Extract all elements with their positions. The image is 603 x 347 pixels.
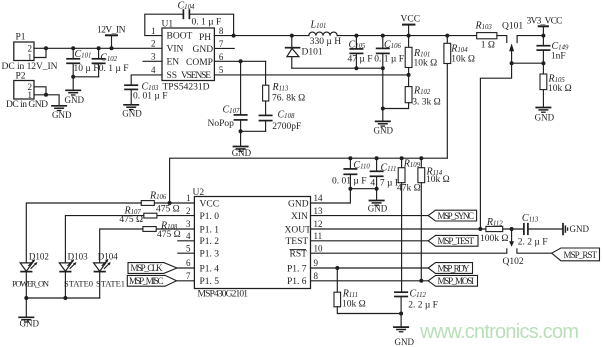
svg-text:BOOT: BOOT — [167, 32, 193, 42]
svg-text:P1. 4: P1. 4 — [200, 264, 220, 274]
capacitor C149 — [536, 36, 569, 64]
wire R112 to C113 — [503, 228, 524, 230]
LED D103 — [59, 252, 93, 298]
wire R113 to C108 — [265, 101, 267, 115]
capacitor C104 — [178, 1, 222, 28]
svg-text:7: 7 — [219, 39, 224, 49]
node D103 cathode — [63, 296, 67, 300]
svg-text:MSP_MISC: MSP_MISC — [129, 276, 164, 286]
wire P1 pin2 — [34, 47, 46, 49]
node C105 bottom — [354, 66, 358, 70]
svg-text:12: 12 — [314, 219, 323, 229]
wire BOOT pin1 — [145, 14, 184, 35]
node P2 junction — [44, 93, 48, 97]
svg-text:3: 3 — [186, 219, 191, 229]
svg-text:MSP_RDY: MSP_RDY — [438, 263, 471, 273]
node C106 top — [381, 34, 385, 38]
tag MSP_TEST — [428, 235, 478, 246]
node C101 bottom — [71, 75, 75, 79]
svg-text:2. 2 µ F: 2. 2 µ F — [408, 301, 438, 311]
svg-text:MSP_RST: MSP_RST — [564, 250, 598, 260]
svg-text:www.cntronics.com: www.cntronics.com — [419, 321, 579, 343]
svg-text:GND: GND — [122, 108, 142, 118]
node C106 bottom — [381, 66, 385, 70]
svg-text:MSP_SYNC: MSP_SYNC — [438, 211, 475, 221]
wire RST pin10 row — [311, 249, 507, 253]
svg-text:2: 2 — [186, 206, 191, 216]
wire C113 to ground — [528, 228, 563, 230]
svg-text:1nF: 1nF — [551, 52, 566, 62]
wire P2 pin1 — [34, 95, 59, 106]
svg-text:4: 4 — [151, 65, 156, 75]
svg-text:GND: GND — [374, 126, 394, 136]
svg-text:GND: GND — [288, 199, 309, 209]
capacitor C110 — [332, 158, 370, 189]
svg-text:13: 13 — [314, 206, 324, 216]
svg-text:MSP430G2101: MSP430G2101 — [198, 290, 249, 300]
svg-text:330 µ H: 330 µ H — [310, 37, 341, 47]
wire LED cathode rail — [26, 298, 99, 317]
svg-text:9: 9 — [314, 258, 319, 268]
svg-text:10k Ω: 10k Ω — [342, 300, 366, 310]
svg-text:GND: GND — [52, 110, 72, 120]
svg-text:6: 6 — [219, 52, 224, 62]
svg-text:3: 3 — [151, 52, 156, 62]
wire EN stub — [143, 60, 162, 62]
svg-text:6: 6 — [186, 258, 191, 268]
node C105 top — [354, 34, 358, 38]
svg-text:3V3_VCC: 3V3_VCC — [527, 16, 563, 26]
svg-text:GND: GND — [368, 203, 388, 213]
svg-text:12V_IN: 12V_IN — [97, 25, 126, 35]
svg-text:3. 3k Ω: 3. 3k Ω — [412, 98, 440, 108]
wire comp ground bus — [241, 131, 266, 146]
transistor Q102 — [503, 229, 552, 267]
ground C112 — [393, 327, 414, 347]
capacitor C107 — [208, 104, 248, 131]
ground comp network — [232, 147, 252, 159]
wire R106 to D102 — [26, 203, 141, 263]
node R104 tap — [445, 34, 449, 38]
svg-text:P1. 0: P1. 0 — [200, 212, 220, 222]
svg-text:U1: U1 — [162, 20, 174, 30]
svg-text:5: 5 — [219, 65, 224, 75]
op-amp U1 TPS54231D regulator — [162, 20, 215, 93]
node R109 tap — [400, 156, 404, 160]
svg-text:P2: P2 — [16, 72, 26, 82]
tag MSP_RST — [552, 248, 600, 261]
node C104 PH — [232, 34, 236, 38]
wire XIN pin13 row — [311, 215, 429, 217]
svg-text:4. 7 µ F: 4. 7 µ F — [370, 179, 400, 189]
wire cap bottoms join — [350, 188, 376, 190]
node P1 junction — [44, 46, 48, 50]
svg-text:47k Ω: 47k Ω — [397, 184, 421, 194]
svg-text:0. 1 µ F: 0. 1 µ F — [192, 18, 222, 28]
svg-text:10k Ω: 10k Ω — [414, 59, 438, 69]
ground R105 — [535, 108, 555, 123]
wire SS pin4 — [131, 75, 162, 85]
node 3V3 rail — [541, 34, 545, 38]
svg-text:MSP_CLK: MSP_CLK — [131, 263, 164, 273]
resistor R105 — [540, 63, 572, 107]
capacitor C112 — [394, 289, 438, 314]
node R114 tap — [419, 156, 423, 160]
node R114 bottom — [419, 279, 423, 283]
resistor R107 — [119, 206, 157, 226]
node C110 bottom — [348, 187, 352, 191]
wire P1.1 pin3 row — [156, 228, 194, 230]
resistor R108 — [143, 220, 181, 240]
wire rail after L101 — [337, 35, 477, 37]
ground output — [374, 121, 394, 135]
svg-text:D101: D101 — [302, 48, 323, 58]
wire base node to 3V3 node — [512, 62, 544, 64]
node C102 tap — [97, 46, 101, 50]
node Q102 tap — [510, 227, 514, 231]
svg-text:VIN: VIN — [167, 45, 184, 55]
resistor R112 — [480, 217, 508, 244]
node bus to VCC pin — [168, 201, 172, 205]
svg-text:5: 5 — [186, 243, 191, 253]
node C107 bottom — [239, 129, 243, 133]
capacitor C103 — [124, 81, 167, 104]
tag MSP_CLK — [128, 263, 194, 274]
wire 12V rail — [46, 47, 162, 49]
svg-text:RST: RST — [290, 250, 308, 260]
wire R107 to D103 — [65, 216, 143, 263]
diode D101 — [285, 36, 323, 69]
wire C104 to PH — [189, 14, 233, 35]
node C101 tap — [71, 46, 75, 50]
svg-text:10k Ω: 10k Ω — [451, 54, 475, 64]
transistor Q101 — [502, 21, 543, 63]
svg-text:10 µ F: 10 µ F — [74, 64, 99, 74]
svg-text:D104: D104 — [98, 252, 118, 262]
wire GND pin7 stub — [214, 47, 234, 49]
node VSENSE divider — [407, 73, 411, 77]
svg-text:2. 2 µ F: 2. 2 µ F — [518, 238, 548, 248]
wire C111 to ground — [376, 189, 378, 201]
svg-text:4: 4 — [186, 231, 191, 241]
wire to ground C112 — [400, 314, 402, 327]
svg-text:D102: D102 — [29, 252, 49, 262]
svg-text:D103: D103 — [68, 252, 88, 262]
svg-text:P1. 1: P1. 1 — [200, 225, 220, 235]
power flag VCC — [401, 14, 421, 35]
wire output bottom rail — [292, 67, 383, 69]
resistor R102 — [383, 75, 441, 109]
wire VCC pin1 row — [154, 202, 194, 204]
svg-text:0. 01 µ F: 0. 01 µ F — [332, 177, 367, 187]
svg-text:DC in 12V_IN: DC in 12V_IN — [2, 62, 58, 72]
svg-text:GND: GND — [570, 224, 590, 234]
connector P2 — [6, 72, 48, 110]
svg-text:47 µ F: 47 µ F — [348, 55, 373, 65]
wire C106 down to ground — [382, 68, 384, 121]
node 12V_IN tap — [110, 46, 114, 50]
svg-text:P1: P1 — [16, 33, 26, 43]
LED D104 — [94, 252, 125, 298]
ground C111 — [368, 201, 388, 214]
node reset line join — [478, 227, 482, 231]
svg-text:1: 1 — [151, 26, 156, 36]
power flag 3V3_VCC — [527, 16, 563, 35]
svg-text:SS: SS — [167, 71, 178, 81]
ground LEDs — [18, 317, 39, 328]
svg-text:0. 01 µ F: 0. 01 µ F — [133, 92, 168, 102]
svg-text:POWER_ON: POWER_ON — [12, 279, 49, 289]
wire XOUT pin12 row — [311, 228, 486, 230]
svg-text:PH: PH — [199, 33, 211, 43]
node C149 bottom — [541, 61, 545, 65]
svg-text:P1. 6: P1. 6 — [287, 277, 307, 287]
svg-text:VSENSE: VSENSE — [181, 71, 211, 81]
svg-text:MSP_TEST: MSP_TEST — [438, 236, 475, 246]
wire PH rail — [214, 35, 308, 37]
capacitor C102 — [92, 48, 129, 77]
svg-text:P1. 5: P1. 5 — [200, 277, 220, 287]
wire TEST pin11 row — [311, 240, 429, 242]
resistor R101 — [405, 36, 437, 75]
svg-text:475 Ω: 475 Ω — [119, 215, 143, 225]
resistor R113 — [263, 82, 306, 104]
resistor R114 — [418, 158, 450, 281]
svg-text:0. 1 µ F: 0. 1 µ F — [374, 55, 404, 65]
svg-text:DC in GND: DC in GND — [6, 100, 48, 110]
svg-text:11: 11 — [314, 231, 323, 241]
svg-text:COMP: COMP — [186, 58, 213, 68]
wire Q101 base jog down — [480, 63, 511, 229]
svg-text:GND: GND — [65, 95, 85, 105]
wire COMP down to C107 — [240, 61, 242, 114]
svg-text:Q101: Q101 — [502, 21, 523, 31]
svg-text:1 Ω: 1 Ω — [481, 41, 495, 51]
svg-text:U2: U2 — [193, 188, 205, 198]
svg-text:STATE0: STATE0 — [64, 279, 93, 289]
node C110 tap — [348, 156, 352, 160]
svg-text:GND: GND — [20, 318, 40, 328]
capacitor C105 — [348, 36, 373, 69]
svg-text:MSP_MOSI: MSP_MOSI — [438, 276, 475, 286]
wire P1.7 pin9 row — [311, 267, 429, 269]
svg-text:P1. 3: P1. 3 — [200, 250, 220, 260]
ground C103 — [122, 105, 142, 119]
ground P2 — [51, 106, 72, 120]
svg-text:2700pF: 2700pF — [272, 122, 301, 132]
wire P1.6 pin8 row — [311, 280, 429, 282]
wire R108 to D104 — [100, 229, 143, 263]
wire P2 pin2 — [34, 87, 46, 95]
svg-text:GND: GND — [395, 337, 415, 347]
svg-text:NoPop: NoPop — [208, 119, 235, 129]
node C112 bottom — [399, 312, 403, 316]
svg-text:8: 8 — [314, 271, 319, 281]
node R102 return — [381, 107, 385, 111]
svg-text:TPS54231D: TPS54231D — [163, 83, 210, 93]
power flag 12V_IN — [97, 25, 126, 48]
inductor L101 — [309, 19, 341, 47]
capacitor C113 — [518, 213, 548, 248]
node Q101 base — [510, 61, 514, 65]
wire 3V3 bus — [170, 158, 448, 203]
svg-text:76. 8k Ω: 76. 8k Ω — [272, 94, 305, 104]
svg-text:VCC: VCC — [200, 199, 220, 209]
connector P1 — [2, 33, 58, 72]
svg-text:GND: GND — [232, 148, 252, 158]
svg-text:P1. 2: P1. 2 — [200, 237, 220, 247]
svg-text:10k Ω: 10k Ω — [426, 175, 450, 185]
svg-text:XIN: XIN — [291, 212, 308, 222]
capacitor C101 — [66, 48, 98, 77]
wire P1.2 stub — [178, 240, 195, 242]
tag MSP_MOSI — [428, 275, 477, 286]
wire COMP pin6 — [214, 60, 265, 62]
svg-text:STATE1: STATE1 — [96, 279, 125, 289]
node COMP C107 — [239, 59, 243, 63]
resistor R104 — [444, 36, 475, 159]
svg-text:475 Ω: 475 Ω — [157, 230, 181, 240]
tag MSP_RDY — [428, 263, 472, 274]
svg-text:Q102: Q102 — [503, 257, 524, 267]
wire P1 pin1 — [34, 48, 46, 57]
svg-text:VCC: VCC — [401, 14, 421, 24]
ground input caps — [65, 90, 85, 105]
svg-text:P1. 7: P1. 7 — [287, 264, 307, 274]
wire P1.0 pin2 row — [157, 215, 195, 217]
node C111 bottom — [375, 187, 379, 191]
wire COMP down to R113 — [265, 61, 267, 85]
svg-text:10k Ω: 10k Ω — [548, 84, 572, 94]
svg-text:14: 14 — [314, 193, 324, 203]
node VCC tap — [407, 34, 411, 38]
svg-text:TEST: TEST — [286, 237, 309, 247]
svg-text:7: 7 — [186, 271, 191, 281]
svg-text:10: 10 — [314, 243, 324, 253]
svg-text:475 Ω: 475 Ω — [156, 205, 180, 215]
op-amp U2 MSP430G2101 — [193, 188, 312, 300]
svg-text:GND: GND — [535, 113, 555, 123]
wire C101 C102 ground join — [73, 77, 98, 90]
wire P1.3 stub — [178, 252, 195, 254]
wire R103 to Q101 — [497, 36, 507, 43]
resistor R103 — [475, 20, 497, 50]
svg-text:EN: EN — [167, 58, 180, 68]
svg-text:1: 1 — [186, 193, 191, 203]
tag MSP_MISC — [127, 275, 194, 286]
svg-text:2: 2 — [151, 39, 156, 49]
resistor R111 — [334, 268, 401, 314]
node C111 tap — [375, 156, 379, 160]
node D102 cathode — [24, 296, 28, 300]
wire VSENSE line — [214, 74, 408, 76]
tag MSP_SYNC — [428, 210, 476, 221]
wire to U2 GND pin14 — [311, 189, 351, 203]
LED D102 — [12, 252, 49, 298]
resistor R106 — [141, 190, 179, 214]
svg-text:GND: GND — [193, 45, 214, 55]
node R111 tap — [335, 266, 339, 270]
capacitor C111 — [370, 158, 401, 189]
capacitor C108 — [259, 110, 302, 133]
ground sideways C113 — [563, 223, 589, 235]
capacitor C106 — [374, 36, 404, 69]
svg-text:1: 1 — [28, 90, 33, 100]
resistor R109 — [397, 158, 421, 292]
svg-text:XOUT: XOUT — [285, 225, 312, 235]
svg-text:0. 1 µ F: 0. 1 µ F — [99, 64, 129, 74]
node D101 — [290, 34, 294, 38]
svg-text:100k Ω: 100k Ω — [480, 234, 508, 244]
